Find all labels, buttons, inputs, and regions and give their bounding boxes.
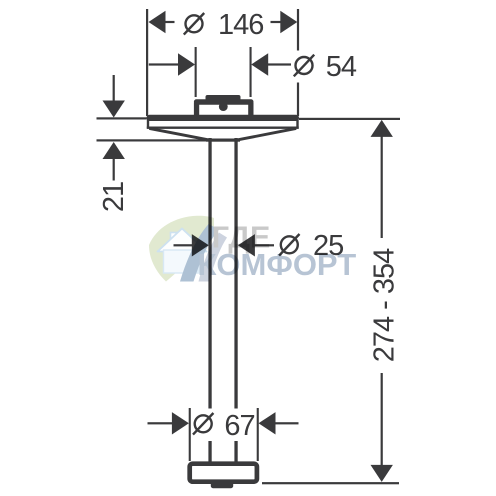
dim O67 left arrow [172, 412, 189, 434]
watermark house roof [158, 229, 207, 252]
dim O54 right arrow [251, 53, 268, 75]
watermark swoosh stripe 2 [199, 233, 228, 282]
dim 274-354 bottom extension line [262, 482, 399, 484]
dim O25 left stub [174, 244, 193, 246]
dim 21 top extension line [97, 117, 147, 119]
dim O54 right extension line [250, 47, 252, 97]
flange plate left side [147, 118, 149, 129]
svg-text:21: 21 [98, 182, 130, 212]
svg-text:146: 146 [218, 9, 263, 41]
dim 274-354 upper line [381, 135, 383, 238]
flange skirt bottom [206, 139, 240, 142]
dim O25 right arrow [238, 234, 255, 256]
dim O54 diameter symbol [294, 55, 314, 77]
dim O67 left extension line [189, 408, 191, 461]
dim O54 left line [149, 63, 180, 65]
top connector right wall [248, 103, 253, 116]
dim O67 right stub [275, 422, 299, 424]
dim O67 left stub [148, 422, 173, 424]
top connector screw dot [219, 102, 228, 111]
svg-text:274 - 354: 274 - 354 [368, 248, 400, 362]
flange skirt right slope [237, 128, 297, 140]
watermark swoosh stripe 1 [180, 224, 219, 282]
svg-text:67: 67 [224, 410, 254, 442]
watermark logo group [149, 216, 356, 282]
flange skirt left slope [149, 128, 209, 140]
dim O25 diameter symbol [279, 234, 299, 256]
svg-text:КОМФОРТ: КОМФОРТ [198, 247, 357, 282]
pipe left wall [208, 138, 211, 465]
dim O67 right extension line [257, 408, 259, 461]
bottom connector nub [211, 484, 233, 489]
dim O25 left arrow [192, 234, 209, 256]
dim 21 down arrow [103, 101, 125, 118]
dim O54 right stub [267, 63, 291, 65]
dim 21 lower line [113, 157, 115, 181]
dim 274-354 top extension line [299, 118, 400, 120]
dim O67 right arrow [259, 412, 276, 434]
dim O146 left extension line [146, 9, 148, 116]
dim O146 left stub [164, 21, 175, 23]
dim O146 right stub [271, 21, 282, 23]
bottom connector body [190, 464, 257, 482]
dim O146 diameter symbol [184, 13, 204, 35]
dim O67 diameter symbol [193, 413, 213, 435]
dim O25 right stub [254, 244, 274, 246]
dim O54 left arrow [178, 53, 195, 75]
flange plate top bar [147, 115, 300, 121]
dim O146 left arrow [149, 11, 166, 33]
watermark house chimney [171, 233, 178, 243]
dim 274-354 down arrow [371, 465, 393, 482]
top connector left wall [194, 103, 199, 116]
top connector bar [194, 99, 254, 104]
dim 21 up arrow [103, 142, 125, 159]
dim O54 text background [294, 51, 360, 83]
flange plate right side [296, 118, 298, 129]
flange plate bottom line [147, 127, 299, 129]
dim O146 right arrow [280, 11, 297, 33]
dim O146 right extension line [297, 9, 299, 116]
watermark leaf [149, 216, 214, 282]
svg-text:54: 54 [326, 51, 357, 83]
dim 274-354 up arrow [371, 120, 393, 137]
pipe right wall [234, 138, 237, 465]
dim 21 upper line [113, 75, 115, 103]
dim 21 bottom extension line [97, 139, 209, 141]
dim 274-354 lower line [381, 373, 383, 466]
dim O54 left extension line [195, 47, 197, 97]
watermark house body [164, 250, 203, 273]
watermark house body shade [193, 250, 203, 273]
top connector lip [206, 95, 241, 101]
dim O67 text background [190, 409, 257, 442]
